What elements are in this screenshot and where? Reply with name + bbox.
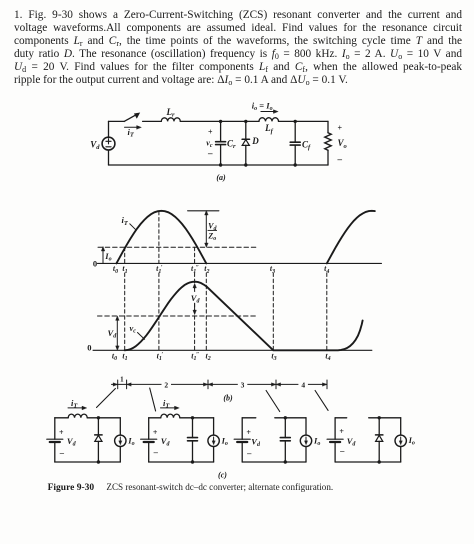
capacitor Cf	[290, 121, 300, 165]
wave1 Io dashed level	[98, 246, 258, 248]
wave2 t axis labels	[112, 351, 331, 362]
circuit4 diode	[376, 416, 383, 464]
wave2 dashed t1 full	[124, 273, 126, 350]
svg-text:–: –	[59, 447, 65, 457]
timebar label 4	[298, 380, 308, 389]
wave1 Io arrow	[101, 247, 104, 264]
wire top right	[279, 120, 329, 122]
wave1 dashed t1pp	[194, 247, 196, 263]
circuit4 battery Vd	[327, 418, 343, 462]
svg-text:0: 0	[87, 342, 91, 352]
svg-text:t1: t1	[122, 351, 127, 362]
wave1 dashed t1	[124, 247, 126, 263]
capacitor Cr	[216, 121, 226, 165]
circuit1 inductor Lr	[68, 414, 87, 418]
svg-text:–: –	[246, 448, 252, 458]
circuit2 iT arrow	[161, 406, 180, 410]
svg-text:–: –	[337, 154, 343, 164]
circuit3 capacitor Cr	[280, 416, 290, 464]
wave2 dashed t2 full	[205, 273, 207, 350]
wave1 Vd/Zo arrow	[205, 211, 208, 248]
wave2 dashed t1p full	[158, 273, 160, 350]
pointer line interval2	[150, 388, 156, 411]
svg-text:(c): (c)	[218, 470, 227, 479]
circuit2 inductor Lr	[161, 414, 180, 418]
wire top middle	[180, 120, 259, 122]
inductor Lf	[259, 118, 279, 122]
svg-text:Zo: Zo	[207, 232, 216, 243]
label Vd/Zo fraction	[207, 222, 217, 243]
wave2 dashed t1pp full	[194, 273, 196, 350]
circuit2 labels	[153, 398, 228, 457]
circuit3 top wire with open switch	[242, 417, 306, 419]
inductor Lr	[161, 118, 180, 122]
timebar label 2	[162, 380, 172, 389]
svg-text:t4: t4	[324, 264, 329, 275]
circuit3 current source Io	[300, 418, 311, 462]
svg-text:Lr: Lr	[165, 107, 175, 119]
svg-text:+: +	[153, 428, 158, 437]
wire top left	[109, 120, 125, 122]
svg-text:–: –	[153, 447, 159, 457]
bottom wire	[109, 164, 329, 166]
wave2 dashed t4 full	[326, 273, 328, 350]
svg-text:t3: t3	[271, 351, 276, 362]
svg-text:t0: t0	[112, 351, 117, 362]
svg-text:(a): (a)	[216, 173, 226, 182]
wave1 t axis labels	[113, 264, 330, 275]
svg-text:Vd: Vd	[108, 328, 118, 340]
pointer line interval4	[315, 391, 328, 411]
svg-text:Cf: Cf	[302, 139, 311, 151]
svg-text:Vo: Vo	[338, 138, 348, 150]
wave2 Vd dashed level	[98, 315, 257, 317]
circuit2 top wire	[149, 417, 214, 419]
circuit1 top wire	[55, 417, 121, 419]
timebar arrowheads	[113, 383, 327, 386]
svg-text:Vd: Vd	[161, 436, 171, 448]
svg-text:t4: t4	[325, 351, 330, 362]
wave1 axis	[97, 262, 381, 264]
circuit1 bottom wire	[55, 461, 121, 463]
timebar ticks	[118, 380, 327, 389]
circuit2 battery Vd	[141, 418, 157, 462]
wave2 vc curve	[125, 282, 363, 351]
svg-text:t2: t2	[204, 264, 209, 275]
svg-text:+: +	[208, 127, 213, 136]
resistor load Vo	[325, 121, 331, 165]
circuit3 battery Vd	[234, 418, 250, 462]
circuit3 labels	[246, 428, 320, 458]
svg-text:Vd: Vd	[90, 139, 100, 151]
wave2 Vd arrow peak	[193, 284, 196, 315]
svg-text:+: +	[59, 428, 64, 437]
node bottom D	[244, 163, 247, 166]
timebar label 3	[238, 380, 248, 389]
svg-text:Vd: Vd	[67, 436, 77, 448]
svg-text:t3: t3	[270, 264, 275, 275]
circuit1 diode	[95, 416, 102, 464]
circuit1 current source Io	[115, 418, 126, 462]
svg-text:Io: Io	[221, 436, 228, 448]
wave2 dashed t3 full	[272, 273, 274, 350]
label Vd wave2 peak	[190, 292, 202, 305]
timebar main line	[112, 383, 328, 385]
svg-text:+: +	[338, 124, 343, 133]
svg-text:1: 1	[120, 376, 124, 384]
svg-text:t2: t2	[205, 351, 210, 362]
svg-text:4: 4	[301, 380, 305, 389]
svg-text:Vd: Vd	[347, 436, 357, 448]
svg-text:io = Io: io = Io	[252, 101, 273, 113]
svg-text:Io: Io	[313, 435, 320, 447]
circuit1 labels	[59, 398, 135, 458]
svg-text:Io: Io	[104, 251, 111, 263]
svg-text:2: 2	[164, 380, 168, 389]
node bottom Cf	[294, 163, 297, 166]
iT arrow	[125, 126, 142, 130]
io=Io arrow	[261, 110, 278, 114]
svg-text:Cr: Cr	[227, 138, 236, 150]
wave2 axis	[93, 349, 372, 351]
wave1 second hump	[327, 211, 375, 264]
svg-text:+: +	[339, 427, 344, 436]
svg-text:Io: Io	[127, 436, 134, 448]
circuit4 labels	[339, 427, 415, 456]
svg-text:vc: vc	[130, 323, 137, 335]
svg-text:D: D	[251, 136, 259, 146]
svg-text:(b): (b)	[223, 394, 233, 403]
diode D	[242, 121, 249, 165]
circuit4 top wire with open switch	[335, 417, 401, 419]
svg-text:3: 3	[241, 380, 245, 389]
pointer line interval3	[266, 391, 280, 412]
circuit4 current source Io	[395, 418, 406, 462]
wave1 iT pointer	[130, 224, 136, 230]
node top D	[244, 120, 247, 123]
wave2 Vd arrow left	[116, 316, 119, 350]
wave1 iT hump	[116, 211, 206, 264]
node top Cr	[219, 120, 222, 123]
switch T	[124, 113, 161, 122]
wave2 vc pointer	[138, 333, 145, 340]
circuit2 bottom wire	[149, 461, 214, 463]
svg-text:–: –	[339, 445, 345, 455]
circuit3 bottom wire	[242, 461, 306, 463]
caption	[48, 482, 334, 493]
node top Cf	[294, 120, 297, 123]
svg-text:t1″: t1″	[191, 351, 199, 362]
wave1 peak ref bar	[188, 210, 219, 212]
svg-text:t1: t1	[122, 264, 127, 275]
circuit2 capacitor Cr	[188, 416, 198, 464]
svg-text:t1′: t1′	[156, 264, 163, 275]
svg-text:Lf: Lf	[264, 123, 274, 135]
node bottom Cr	[219, 163, 222, 166]
circuit1 battery Vd	[47, 418, 63, 462]
svg-text:Figure 9-30: Figure 9-30	[48, 483, 95, 493]
svg-text:Io: Io	[408, 435, 415, 447]
svg-text:0: 0	[93, 259, 97, 269]
voltage source Vd	[102, 121, 115, 165]
svg-text:–: –	[207, 148, 213, 158]
svg-text:t1′: t1′	[157, 351, 164, 362]
svg-text:iT: iT	[128, 127, 135, 139]
svg-text:t1″: t1″	[191, 264, 199, 275]
circuit1 iT arrow	[68, 406, 87, 410]
svg-text:Vd: Vd	[251, 436, 261, 448]
svg-text:iT: iT	[122, 215, 129, 227]
circuit4 bottom wire	[335, 461, 401, 463]
wave1 dashed t1p	[158, 211, 160, 263]
circuit2 current source Io	[208, 418, 219, 462]
pointer line interval1	[97, 389, 116, 408]
svg-text:ZCS resonant-switch dc–dc conv: ZCS resonant-switch dc–dc converter; alt…	[106, 482, 333, 492]
svg-text:t0: t0	[113, 264, 118, 275]
